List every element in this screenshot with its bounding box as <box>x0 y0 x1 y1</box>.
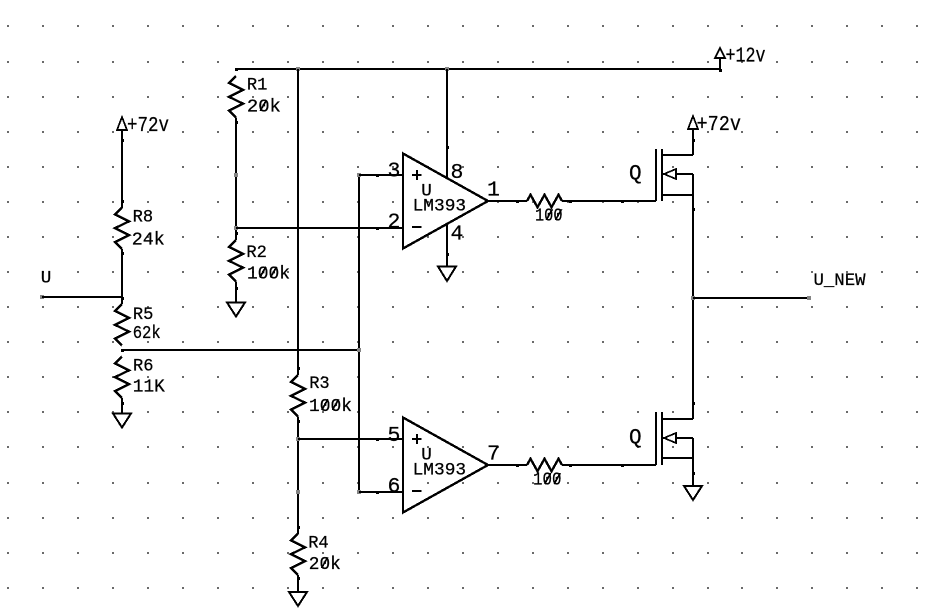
ground (under R4) <box>289 592 307 606</box>
transistor Q (bottom MOSFET) <box>656 412 693 465</box>
svg-text:+72v: +72v <box>127 114 169 138</box>
junction R1/R2 node <box>234 226 238 230</box>
pin number 2 <box>388 211 401 235</box>
resistor R4 <box>291 526 305 580</box>
svg-text:R8: R8 <box>133 208 154 228</box>
pin number 8 <box>451 161 464 185</box>
label R6 11K <box>133 357 165 398</box>
power +12v <box>715 45 766 73</box>
wire R5-R6 node to comparator link column <box>122 349 359 351</box>
svg-text:62k: 62k <box>133 324 161 344</box>
wire R4 to ground <box>297 575 299 592</box>
svg-text:7: 7 <box>487 443 500 467</box>
wire 100-ohm to gate Q (top) <box>562 200 656 203</box>
junction top rail / R3 column <box>296 67 300 71</box>
svg-text:5: 5 <box>388 424 401 448</box>
label U (top comparator) <box>421 181 432 201</box>
svg-text:R5: R5 <box>133 305 154 325</box>
label R2 100k <box>246 243 290 284</box>
pin number 6 <box>388 475 401 499</box>
pin number 7 <box>487 443 500 467</box>
svg-text:1: 1 <box>487 178 500 202</box>
resistor R2 <box>229 232 243 290</box>
wire Q2 source to ground <box>692 438 695 486</box>
wire R3 to R4 <box>297 417 299 535</box>
ground (under R6) <box>113 414 131 428</box>
svg-text:R3: R3 <box>309 374 330 394</box>
svg-text:R6: R6 <box>133 357 154 377</box>
power +72v (left) <box>117 114 169 142</box>
transistor Q (top MOSFET) <box>656 149 693 201</box>
label Q (top) <box>629 163 642 186</box>
wire pin7 to 100-ohm (bottom) <box>488 464 527 467</box>
wire pin 4 (V-) <box>446 224 449 267</box>
wire 100-ohm to gate Q (bottom) <box>562 464 656 467</box>
svg-text:Q: Q <box>629 427 642 450</box>
label R5 62k <box>133 305 161 344</box>
pin number 5 <box>388 424 401 448</box>
wire to pin 2 <box>236 227 403 230</box>
svg-text:4: 4 <box>451 223 464 247</box>
svg-text:+72v: +72v <box>697 113 742 137</box>
node U_NEW: output wire <box>691 296 811 300</box>
slashed-zero strokes on value labels <box>260 100 562 568</box>
wire R1 to R2 <box>235 118 237 241</box>
resistor 100 (bottom) <box>527 459 562 471</box>
svg-text:11K: 11K <box>133 377 165 397</box>
wire to pin 5 <box>298 438 403 441</box>
label R4 20k <box>308 534 341 575</box>
svg-text:LM393: LM393 <box>413 461 467 481</box>
label Q (bottom) <box>629 427 642 450</box>
svg-text:U_NEW: U_NEW <box>814 271 866 291</box>
junction (stray on R1R2 column at pin3 level) <box>234 173 238 177</box>
junction link top (pin3 corner) <box>357 173 361 177</box>
junction (stray on R3R4 column at pin6 level) <box>296 490 300 494</box>
pin number 1 <box>487 178 500 202</box>
wire to pin 3 <box>359 174 403 177</box>
svg-text:100k: 100k <box>247 264 290 284</box>
resistor 100 (top) <box>527 195 562 207</box>
label LM393 (top) <box>413 196 467 216</box>
svg-text:20k: 20k <box>309 555 341 575</box>
resistor R5 <box>115 297 129 352</box>
junction top rail / pin8 <box>445 67 449 71</box>
ground (under Q2) <box>684 486 702 500</box>
svg-text:3: 3 <box>388 160 401 184</box>
svg-text:U: U <box>41 269 52 289</box>
ground (under R2) <box>227 303 245 317</box>
op-amp U LM393 (bottom) <box>403 418 488 513</box>
power +72v (right) <box>688 113 741 155</box>
ground (pin 4) <box>438 267 456 282</box>
node U: input wire <box>40 295 122 299</box>
resistor R8 <box>115 200 129 255</box>
svg-text:8: 8 <box>451 161 464 185</box>
wire pin1 to 100-ohm (top) <box>488 200 527 203</box>
pin number 4 <box>451 223 464 247</box>
junction link bottom (pin6 corner) <box>357 490 361 494</box>
label U_NEW <box>814 271 866 291</box>
svg-text:+12v: +12v <box>726 45 766 69</box>
wire R8 to R5 <box>121 249 123 304</box>
wire pin 8 (V+) <box>446 69 449 178</box>
junction R3/R4 node (pin5 feed) <box>296 437 300 441</box>
svg-text:R2: R2 <box>246 243 267 263</box>
wire R2 to ground <box>235 282 237 304</box>
label U (bottom comparator) <box>421 446 432 466</box>
label LM393 (bottom) <box>413 461 467 481</box>
resistor R3 <box>291 367 305 423</box>
label R3 100k <box>309 374 352 417</box>
wire vertical link pin3-pin6 <box>358 175 360 492</box>
resistor R6 <box>115 357 129 406</box>
wire top rail down to R3 <box>297 69 299 375</box>
svg-text:Q: Q <box>629 163 642 186</box>
wire R6 to ground <box>121 398 123 414</box>
wire top rail (+12v net) <box>236 68 720 70</box>
svg-text:2: 2 <box>388 211 401 235</box>
svg-text:6: 6 <box>388 475 401 499</box>
op-amp U LM393 (top) <box>403 154 488 249</box>
svg-text:R1: R1 <box>247 75 268 95</box>
resistor R1 <box>229 68 243 124</box>
pin number 3 <box>388 160 401 184</box>
label R8 24k <box>132 208 165 251</box>
svg-text:20k: 20k <box>247 98 281 118</box>
wire +72v to R8 <box>121 141 123 208</box>
svg-text:LM393: LM393 <box>413 196 467 216</box>
label U (input net) <box>41 269 52 289</box>
label 100 (top) <box>535 207 563 227</box>
svg-text:24k: 24k <box>132 231 165 251</box>
wire Q1 source to output node to Q2 drain <box>692 174 695 419</box>
wire to pin 6 <box>359 491 403 494</box>
svg-text:100k: 100k <box>309 397 352 417</box>
junction divider node / link <box>357 348 361 352</box>
svg-text:R4: R4 <box>308 534 329 554</box>
label R1 20k <box>247 75 281 117</box>
label 100 (bottom) <box>533 471 562 491</box>
